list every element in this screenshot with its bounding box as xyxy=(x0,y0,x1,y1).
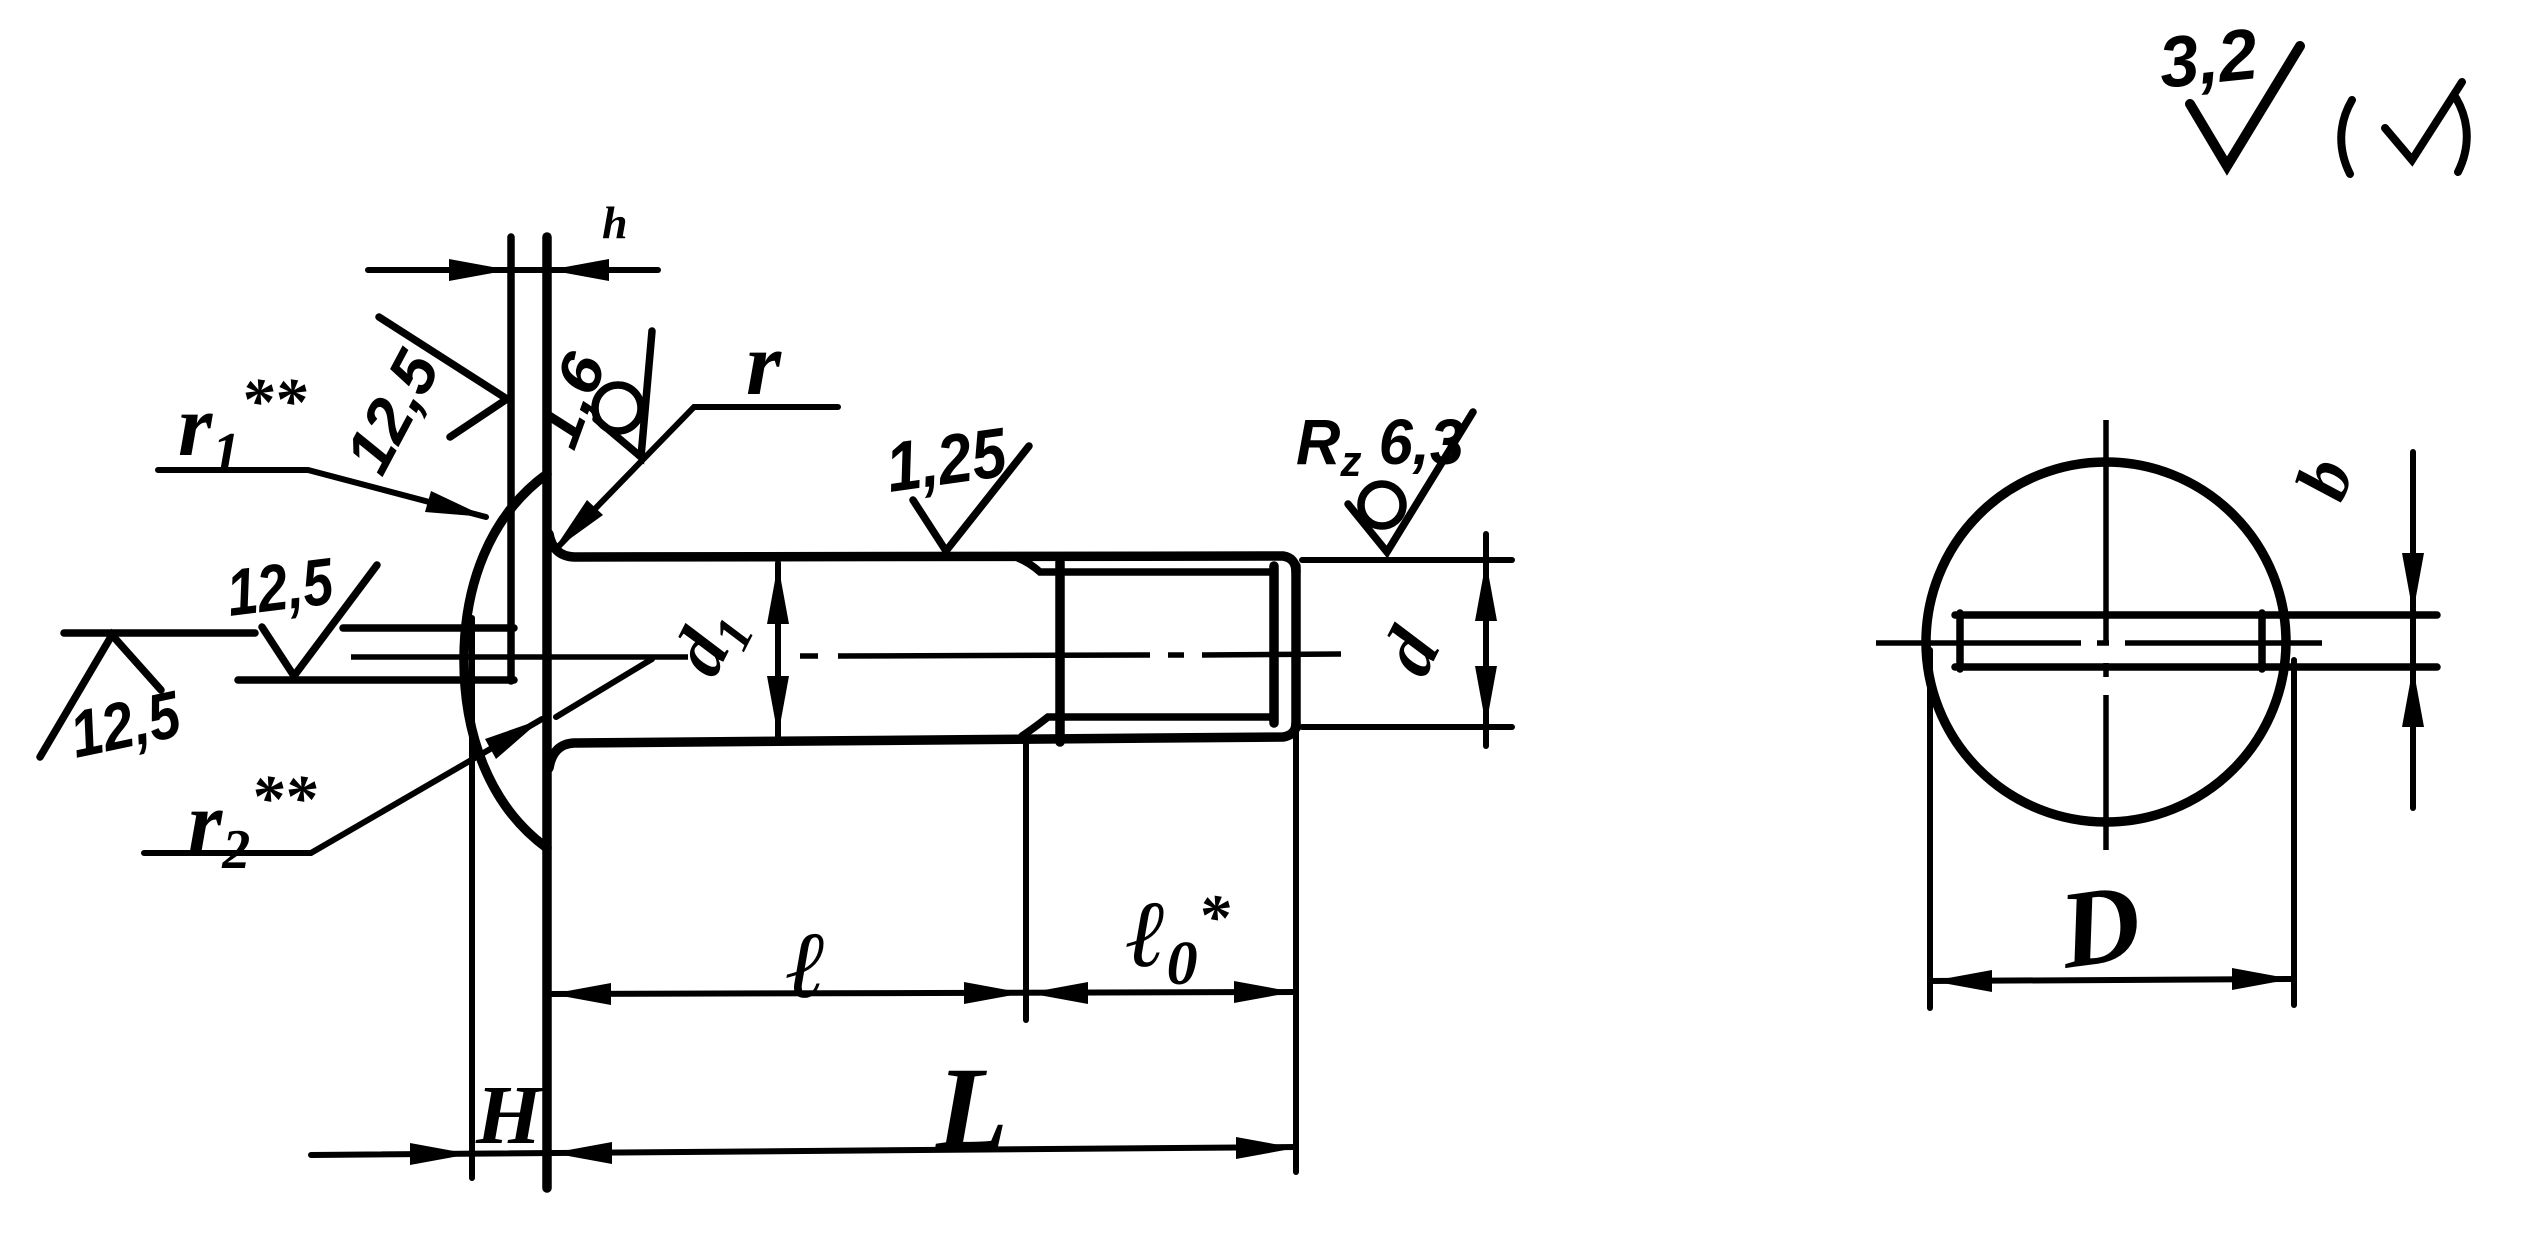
svg-text:L: L xyxy=(935,1043,1008,1174)
svg-text:1,25: 1,25 xyxy=(881,413,1012,507)
svg-text:D: D xyxy=(2051,860,2148,992)
svg-text:h: h xyxy=(602,197,628,248)
svg-text:H: H xyxy=(475,1069,544,1162)
svg-text:3,2: 3,2 xyxy=(2155,14,2261,104)
svg-text:r: r xyxy=(746,315,782,414)
svg-text:Rz 6,3: Rz 6,3 xyxy=(1296,406,1464,486)
svg-text:ℓ: ℓ xyxy=(786,912,827,1018)
svg-text:12,5: 12,5 xyxy=(223,543,338,629)
